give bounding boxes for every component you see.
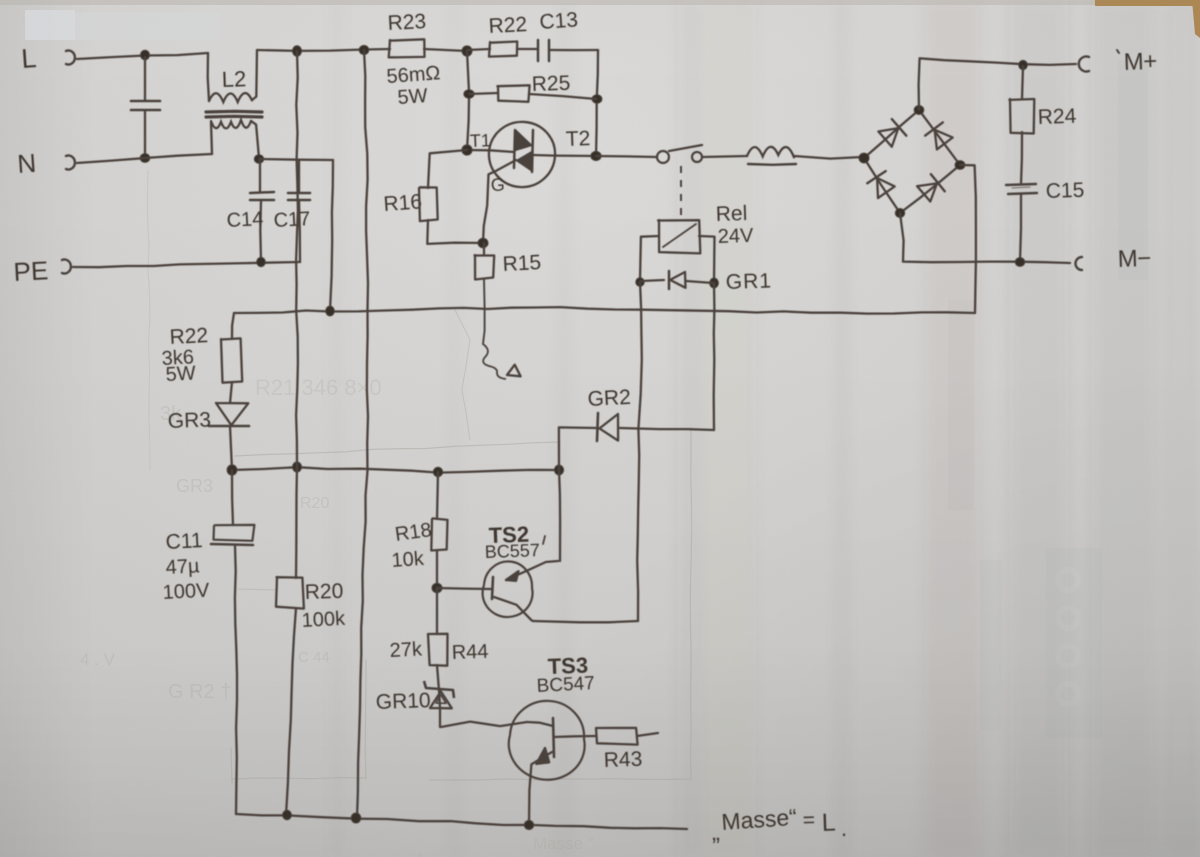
junction dot M- C15 (1015, 258, 1024, 267)
connector PE (62, 260, 71, 274)
junction dot R25 left (464, 90, 474, 99)
dashed link switch to relay (680, 166, 682, 216)
resistor R20 (296, 467, 297, 578)
resistor R24 (1022, 66, 1023, 99)
resistor R18 (437, 472, 438, 519)
wire T1 to R16 (428, 150, 467, 188)
capacitor C15 (1006, 184, 1036, 185)
junction dot R25 right (592, 95, 602, 104)
bridge diode lower-left (877, 178, 895, 198)
resistor R15 (483, 243, 485, 255)
connector N (66, 156, 75, 170)
wire main bus (234, 307, 975, 314)
junction dot row-R18 (433, 467, 442, 476)
junction dot M+ R24 (1019, 60, 1028, 69)
wire GR10 to TS3 base (441, 722, 527, 727)
TS3 emitter wire (529, 752, 552, 825)
zener GR10 (424, 681, 454, 698)
junction dot top-left vertical (293, 46, 302, 56)
wire top bus (257, 49, 390, 51)
junction dot row-C11 (227, 465, 237, 475)
construction pencil lines (148, 170, 692, 783)
TS2 emitter wire (494, 597, 533, 621)
wire relay right lead (699, 236, 715, 282)
wire PE (73, 262, 300, 267)
resistor R22 3k6 5W (232, 313, 234, 339)
junction dot bottom-mid (351, 813, 361, 823)
diode GR2 (620, 428, 714, 430)
capacitor C11 (232, 470, 233, 525)
triac lower triangle (517, 152, 532, 171)
junction dot bridge right (955, 161, 965, 170)
wire switch to choke (703, 156, 747, 157)
junction dot N-filter cap (140, 154, 150, 163)
bridge wire inlet corner (862, 157, 864, 158)
junction dot bridge top (914, 106, 924, 115)
junction dot R23-node (462, 46, 472, 56)
wire C17 column drop (330, 160, 333, 311)
wire R22 to C13 (517, 48, 537, 50)
wire L input (77, 53, 208, 59)
TS2 base wire (437, 588, 491, 589)
triac gate wire (483, 160, 516, 243)
connector M+ (1079, 57, 1089, 72)
wire relay left lead (640, 236, 659, 281)
wire node row (232, 467, 559, 472)
triac circle (489, 122, 555, 187)
junction dot GR1 cathode side (710, 278, 719, 288)
wire bridge bottom to M- (900, 213, 1070, 263)
triac T1 lead (467, 150, 514, 152)
TS3 collector wire (554, 736, 596, 737)
TS2 collector wire (506, 561, 558, 580)
triac bars (514, 130, 515, 168)
wire node to R22 (467, 49, 490, 50)
diode GR3 (216, 403, 248, 425)
junction dot bridge left (859, 153, 869, 163)
bridge diode lower-right (917, 183, 937, 201)
junction dot bottom-R20 (283, 810, 292, 819)
wire choke to bridge (794, 156, 862, 159)
resistor R25 (497, 85, 529, 102)
resistor R43 (596, 728, 638, 745)
resistor R44 (436, 588, 438, 634)
switch lever (669, 145, 702, 151)
junction dot top-mid vertical (359, 45, 369, 54)
wire GR1 right column down (713, 283, 716, 430)
capacitor C14 (259, 161, 261, 192)
bridge side lower-right (900, 165, 960, 213)
wire T2 column (596, 50, 598, 156)
TS3 base bar (553, 718, 554, 757)
wire bridge right to main bus (960, 165, 976, 313)
diode GR1 (641, 280, 664, 281)
transistor TS3 BC547 circle (509, 701, 585, 780)
wire R25 left (469, 93, 498, 94)
junction dot T2 (591, 151, 601, 160)
wire mid vertical bus x367 (357, 50, 368, 818)
switch contact right (692, 152, 702, 162)
junction dot GR1 anode (636, 278, 644, 287)
inductor L2 upper winding (208, 53, 209, 101)
capacitor C13 (537, 40, 540, 61)
bridge side upper-right (919, 110, 960, 165)
wire R23 right (424, 49, 467, 51)
bridge side lower-left (864, 158, 900, 213)
relay Rel 24V (658, 220, 700, 253)
bridge side upper-left (864, 110, 919, 158)
triac upper triangle (516, 131, 531, 150)
junction dot TS2 base node (432, 583, 442, 592)
junction dot T1 (462, 145, 472, 155)
wire T1 column (467, 51, 469, 150)
junction dot bottom-TS3 (524, 820, 533, 829)
bridge diode upper-left (878, 128, 898, 147)
TS2 base bar (492, 577, 493, 599)
inductor L2 lower winding (211, 122, 212, 154)
wire left vertical x297 (296, 51, 298, 467)
connector L (66, 51, 75, 65)
inductor output choke (747, 147, 794, 157)
wire TS2 emitter to GR1 column (533, 621, 638, 622)
wire N to C17 column (259, 159, 333, 160)
wire TS2 collector to node (559, 470, 560, 561)
capacitor line-filter (L-N) (144, 57, 146, 100)
triac T2 lead (533, 155, 596, 156)
connector M- (1076, 257, 1083, 270)
junction dot bridge bottom (895, 209, 904, 218)
junction dot main bus x330 (326, 306, 335, 316)
wire bridge top to M+ (919, 58, 1076, 110)
wire GR3 to node row (230, 426, 232, 470)
TS2 collector arrow (506, 571, 519, 581)
junction dot row-GR2 (554, 465, 563, 475)
junction dot N node (254, 155, 263, 164)
transistor TS2 BC557 circle (483, 561, 533, 617)
TS3 base joint (527, 722, 553, 726)
wire R16 to gate node (427, 220, 483, 244)
TS3 emitter arrow (536, 748, 549, 764)
junction dot PE-C14 (257, 257, 266, 266)
junction dot row-R20 (293, 462, 302, 472)
wire T2 to switch (596, 156, 656, 157)
R15 open lead squiggle (483, 279, 485, 344)
bridge diode upper-right (935, 130, 953, 150)
wire C13 to T2 column (549, 49, 598, 51)
inductor L2 core (206, 110, 262, 114)
wire GR1 left column down (637, 282, 642, 621)
wire N input (77, 154, 212, 163)
junction dot L-filter cap (141, 50, 150, 60)
wire bottom bus Masse (236, 814, 687, 829)
switch contact left (657, 151, 669, 163)
junction dot gate node (478, 238, 488, 248)
capacitor C17 (298, 161, 300, 192)
wire R25 right (529, 94, 596, 99)
